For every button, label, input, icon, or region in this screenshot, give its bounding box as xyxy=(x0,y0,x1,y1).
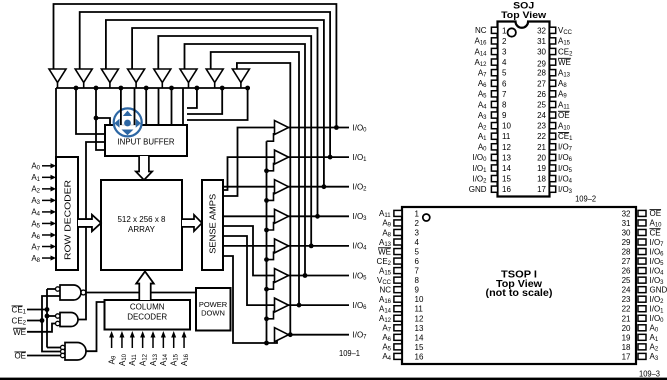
svg-text:31: 31 xyxy=(622,219,631,228)
svg-text:16: 16 xyxy=(415,352,424,361)
svg-text:26: 26 xyxy=(537,90,546,99)
wire bus stair right 1 into input buffer right edge xyxy=(187,88,197,108)
wire feedback I/O1 to input buffer 1 xyxy=(80,12,330,157)
svg-text:7: 7 xyxy=(415,267,420,276)
svg-text:22: 22 xyxy=(537,132,546,141)
svg-text:27: 27 xyxy=(622,257,631,266)
svg-text:SENSE AMPS: SENSE AMPS xyxy=(209,194,218,254)
SOJ pin 8 (A4) xyxy=(491,100,507,109)
wire sense amps to driver 0 xyxy=(223,128,275,197)
input buffer triangle 3 xyxy=(101,69,118,83)
SOJ pin 3 (A14) xyxy=(491,47,507,56)
svg-text:14: 14 xyxy=(502,164,511,173)
output driver triangle I/O4 xyxy=(275,239,289,253)
wire feedback I/O4 to input buffer 4 xyxy=(158,36,311,246)
svg-text:GND: GND xyxy=(469,185,487,194)
input buffer triangle 8 xyxy=(232,69,249,83)
hollow arrow row decoder to array xyxy=(78,215,101,231)
svg-text:4: 4 xyxy=(502,58,507,67)
svg-text:13: 13 xyxy=(415,324,424,333)
svg-text:12: 12 xyxy=(415,314,424,323)
svg-text:15: 15 xyxy=(502,175,511,184)
wire bus stair B into input buffer left edge xyxy=(76,88,105,134)
TSOP pin 17 (A3) xyxy=(622,352,646,361)
gate G1 chip enable NAND xyxy=(60,285,81,300)
input buffer triangle 5 xyxy=(154,69,171,83)
wire sense amps to driver 4 xyxy=(223,245,275,247)
TSOP pin 2 (A9) xyxy=(394,219,420,228)
SOJ pin 26 (A9) xyxy=(537,90,556,99)
output driver triangle I/O1 xyxy=(275,150,289,164)
svg-text:9: 9 xyxy=(502,111,507,120)
wire enable tap driver 4 xyxy=(267,251,274,259)
svg-text:19: 19 xyxy=(537,164,546,173)
wire WE xyxy=(27,324,58,332)
SOJ pin 13 (I/O0) xyxy=(491,153,511,162)
wire I/O7 output line xyxy=(289,334,350,336)
SOJ pin 31 (A15) xyxy=(537,37,556,46)
svg-text:5: 5 xyxy=(502,69,507,78)
wire G2 output to input buffer xyxy=(78,142,105,320)
hollow arrow row decoder to array redraw xyxy=(78,215,101,231)
wire enable tap driver 1 xyxy=(267,163,274,171)
SOJ pin 28 (A13) xyxy=(537,69,556,78)
wire sense amps to driver 3 xyxy=(223,215,275,217)
wire output enable rail xyxy=(266,141,268,343)
svg-text:30: 30 xyxy=(537,47,546,56)
TSOP pin 9 (NC) xyxy=(394,286,420,295)
SOJ pin 25 (A11) xyxy=(537,100,556,109)
SOJ pin 16 (GND) xyxy=(491,185,511,194)
svg-text:16: 16 xyxy=(502,185,511,194)
TSOP pin 6 (CE2) xyxy=(394,257,420,266)
svg-text:22: 22 xyxy=(622,305,631,314)
svg-text:21: 21 xyxy=(537,143,546,152)
wire bus stair right 3 into input buffer right edge xyxy=(187,88,248,120)
wire enable tap driver 2 xyxy=(267,192,274,200)
svg-text:WE: WE xyxy=(13,328,26,337)
wire OE xyxy=(27,355,62,357)
SOJ pin 30 (CE2) xyxy=(537,47,556,56)
svg-text:23: 23 xyxy=(537,122,546,131)
hollow arrow column decoder to array redraw xyxy=(136,272,153,301)
svg-text:28: 28 xyxy=(622,248,631,257)
bottom border rule xyxy=(0,378,667,380)
svg-text:25: 25 xyxy=(622,276,631,285)
TSOP pin 3 (A8) xyxy=(394,228,420,237)
svg-text:WE: WE xyxy=(558,58,571,67)
TSOP pin 30 (*CE) xyxy=(622,228,646,237)
SOJ pin 19 (I/O5) xyxy=(537,164,556,173)
svg-text:11: 11 xyxy=(415,305,424,314)
wire feedback I/O3 to input buffer 3 xyxy=(132,28,317,216)
TSOP pin 20 (A0) xyxy=(622,324,646,333)
svg-text:Top View: Top View xyxy=(501,10,547,21)
svg-text:2: 2 xyxy=(415,219,420,228)
SOJ pin 7 (A5) xyxy=(491,90,507,99)
svg-text:(not to scale): (not to scale) xyxy=(486,288,553,299)
input A13 xyxy=(152,336,154,348)
svg-text:14: 14 xyxy=(415,333,424,342)
svg-text:23: 23 xyxy=(622,295,631,304)
svg-text:11: 11 xyxy=(502,132,511,141)
TSOP pin 21 (I/O0) xyxy=(622,314,646,323)
wire feedback I/O0 to input buffer 0 xyxy=(54,4,337,128)
wire CE2 xyxy=(27,296,60,321)
svg-text:DECODER: DECODER xyxy=(127,313,167,322)
svg-text:8: 8 xyxy=(502,100,507,109)
SOJ pin 1 indicator xyxy=(508,28,516,36)
svg-text:NC: NC xyxy=(379,285,391,294)
power down block xyxy=(196,288,231,331)
cursor icon overlay xyxy=(114,108,142,136)
row decoder block xyxy=(56,157,78,270)
TSOP pin 15 (A5) xyxy=(394,343,424,352)
wire CE1 xyxy=(27,309,47,311)
wire sense amps to driver 7 via bottom xyxy=(223,256,277,343)
svg-text:30: 30 xyxy=(622,228,631,237)
svg-text:18: 18 xyxy=(537,175,546,184)
TSOP pin 28 (I/O6) xyxy=(622,248,646,257)
svg-text:12: 12 xyxy=(502,143,511,152)
input A12 xyxy=(142,336,144,348)
hollow arrow array to sense amps xyxy=(182,215,202,231)
SOJ pin 2 (A16) xyxy=(491,37,507,46)
wire bus stair C into input buffer left edge and top xyxy=(96,88,105,150)
svg-text:26: 26 xyxy=(622,267,631,276)
svg-text:25: 25 xyxy=(537,100,546,109)
svg-text:32: 32 xyxy=(622,209,631,218)
SOJ pin 23 (A10) xyxy=(537,122,556,131)
svg-text:31: 31 xyxy=(537,37,546,46)
svg-text:6: 6 xyxy=(415,257,420,266)
svg-text:15: 15 xyxy=(415,343,424,352)
gate G3 output enable NAND xyxy=(65,343,86,361)
svg-text:OE: OE xyxy=(14,352,26,361)
input A16 xyxy=(183,336,185,348)
SOJ pin 1 (NC) xyxy=(491,26,507,35)
wire input bus horizontal xyxy=(56,87,250,89)
svg-text:109–1: 109–1 xyxy=(339,348,360,358)
SOJ pin 27 (A8) xyxy=(537,79,556,88)
svg-text:GND: GND xyxy=(650,285,667,294)
input buffer block xyxy=(105,125,187,156)
SOJ pin 17 (I/O3) xyxy=(537,185,556,194)
wire feedback I/O5 to input buffer 5 xyxy=(185,44,306,276)
hollow arrow column decoder to array xyxy=(136,272,153,301)
svg-text:512 x 256 x 8: 512 x 256 x 8 xyxy=(117,215,166,224)
TSOP pin 1 (A11) xyxy=(394,209,420,218)
wire I/O1 output line xyxy=(289,156,350,158)
column decoder block xyxy=(105,300,191,330)
svg-text:109–2: 109–2 xyxy=(575,194,596,204)
cursor icon arrows xyxy=(114,111,141,136)
input buffer triangle 6 xyxy=(180,69,197,83)
wire bus drop 3 into input buffer top xyxy=(171,88,173,125)
wire G3 output to column decoder xyxy=(86,302,105,351)
output driver triangle I/O3 xyxy=(275,209,289,223)
SOJ pin 20 (I/O6) xyxy=(537,153,556,162)
TSOP pin 23 (I/O2) xyxy=(622,295,646,304)
svg-text:109–3: 109–3 xyxy=(639,368,660,378)
svg-text:19: 19 xyxy=(622,333,631,342)
svg-text:10: 10 xyxy=(415,295,424,304)
wire I/O3 output line xyxy=(289,215,350,217)
TSOP pin 5 (*WE) xyxy=(394,248,420,257)
TSOP pin 16 (A4) xyxy=(394,352,424,361)
svg-text:COLUMN: COLUMN xyxy=(130,303,165,312)
svg-text:CE: CE xyxy=(650,228,661,237)
svg-text:1: 1 xyxy=(502,26,507,35)
wire bus left end down to row decoder xyxy=(55,88,57,157)
SOJ pin 4 (A12) xyxy=(491,58,507,67)
SOJ pin 22 (*CE1) xyxy=(537,132,556,141)
TSOP pin 24 (GND) xyxy=(622,286,646,295)
SOJ pin 9 (A3) xyxy=(491,111,507,120)
wire I/O2 output line xyxy=(289,186,350,188)
svg-text:17: 17 xyxy=(537,185,546,194)
gate G2 write NAND xyxy=(60,313,78,327)
output driver triangle I/O5 xyxy=(275,269,289,283)
svg-text:3: 3 xyxy=(415,228,420,237)
output driver triangle I/O0 xyxy=(275,121,289,135)
wire I/O4 output line xyxy=(289,245,350,247)
TSOP pin 22 (I/O1) xyxy=(622,305,646,314)
svg-text:18: 18 xyxy=(622,343,631,352)
svg-text:8: 8 xyxy=(415,276,420,285)
input A10 xyxy=(121,336,123,348)
svg-text:NC: NC xyxy=(475,26,487,35)
array block 512x256x8 xyxy=(101,180,182,270)
svg-text:13: 13 xyxy=(502,153,511,162)
svg-text:ROW DECODER: ROW DECODER xyxy=(64,180,73,260)
TSOP pin 14 (A6) xyxy=(394,333,424,342)
svg-text:DOWN: DOWN xyxy=(201,309,225,318)
TSOP pin 12 (A12) xyxy=(394,314,424,323)
TSOP pin 18 (A2) xyxy=(622,343,646,352)
wire bus drops over icon xyxy=(120,88,122,125)
input A11 xyxy=(131,336,133,348)
svg-text:OE: OE xyxy=(558,111,570,120)
wire I/O0 output line xyxy=(289,127,350,129)
TSOP pin 25 (I/O3) xyxy=(622,276,646,285)
wire sense amps to driver 1 xyxy=(223,157,275,190)
svg-text:OE: OE xyxy=(650,209,662,218)
wire bus drop 1 into input buffer top xyxy=(145,88,147,125)
input buffer triangle 1 xyxy=(49,69,66,83)
output driver triangle I/O2 xyxy=(275,180,289,194)
svg-text:24: 24 xyxy=(537,111,546,120)
wire sense amps to driver 6 xyxy=(223,236,275,305)
svg-text:29: 29 xyxy=(537,60,546,69)
svg-text:17: 17 xyxy=(622,352,631,361)
TSOP pin 8 (VCC) xyxy=(394,276,420,285)
wire feedback I/O2 to input buffer 2 xyxy=(106,20,324,187)
hollow arrow input buffer to array xyxy=(136,156,152,180)
svg-text:9: 9 xyxy=(415,286,420,295)
SOJ pin 12 (A0) xyxy=(491,143,511,152)
wire feedback I/O6 to input buffer 6 xyxy=(211,52,299,305)
svg-text:24: 24 xyxy=(622,286,631,295)
wire enable tap driver 5 xyxy=(267,281,274,289)
svg-text:4: 4 xyxy=(415,238,420,247)
SOJ pin 14 (I/O1) xyxy=(491,164,511,173)
input buffer triangle 7 xyxy=(206,69,223,83)
SOJ pin 6 (A6) xyxy=(491,79,507,88)
wire bus stair right 2 into input buffer right edge xyxy=(187,88,222,114)
input buffer triangle 4 xyxy=(128,69,145,83)
input A15 xyxy=(173,336,175,348)
SOJ pin 21 (I/O7) xyxy=(537,143,556,152)
wire enable tap driver 0 xyxy=(267,133,274,141)
TSOP pin 1 indicator xyxy=(423,214,430,221)
TSOP pin 4 (A13) xyxy=(394,238,420,247)
wire G1 output to power down xyxy=(86,292,197,294)
svg-text:29: 29 xyxy=(622,238,631,247)
output driver triangle I/O6 xyxy=(275,298,289,312)
svg-text:2: 2 xyxy=(502,37,507,46)
SOJ pin 11 (A1) xyxy=(491,132,510,141)
input A14 xyxy=(162,336,164,348)
SOJ pin 18 (I/O4) xyxy=(537,175,556,184)
svg-text:5: 5 xyxy=(415,248,420,257)
TSOP pin 31 (A10) xyxy=(622,219,646,228)
SOJ pin 5 (A7) xyxy=(491,69,507,78)
svg-text:21: 21 xyxy=(622,314,631,323)
TSOP package body xyxy=(402,207,636,364)
TSOP pin 7 (A15) xyxy=(394,267,420,276)
TSOP pin 11 (A14) xyxy=(394,305,423,314)
TSOP pin 26 (I/O4) xyxy=(622,267,646,276)
TSOP pin 19 (A1) xyxy=(622,333,646,342)
svg-text:1: 1 xyxy=(415,209,420,218)
SOJ pin 10 (A2) xyxy=(491,122,511,131)
svg-text:20: 20 xyxy=(537,153,546,162)
svg-text:20: 20 xyxy=(622,324,631,333)
TSOP pin 13 (A7) xyxy=(394,324,424,333)
wire sense amps to driver 2 xyxy=(223,186,275,188)
TSOP pin 10 (A16) xyxy=(394,295,424,304)
TSOP pin 29 (I/O7) xyxy=(622,238,646,247)
SOJ package body xyxy=(498,22,550,197)
svg-text:6: 6 xyxy=(502,79,507,88)
TSOP pin 27 (I/O5) xyxy=(622,257,646,266)
svg-text:INPUT BUFFER: INPUT BUFFER xyxy=(118,138,175,147)
wire I/O5 output line xyxy=(289,275,350,277)
wire enable tap driver 3 xyxy=(267,222,274,230)
input A9 xyxy=(111,336,113,348)
wire feedback I/O7 to input buffer 7 xyxy=(237,63,290,335)
wire I/O6 output line xyxy=(289,304,350,306)
svg-text:7: 7 xyxy=(502,90,507,99)
wire sense amps to driver 5 xyxy=(223,226,275,276)
svg-text:32: 32 xyxy=(537,26,546,35)
TSOP pin 32 (*OE) xyxy=(622,209,646,218)
sense amps block xyxy=(202,180,223,270)
svg-text:10: 10 xyxy=(502,122,511,131)
SOJ pin 15 (I/O2) xyxy=(491,175,511,184)
svg-text:3: 3 xyxy=(502,47,507,56)
SOJ pin 29 (*WE) xyxy=(537,59,556,69)
SOJ pin 24 (*OE) xyxy=(537,111,556,120)
svg-text:ARRAY: ARRAY xyxy=(128,225,156,234)
svg-text:WE: WE xyxy=(378,247,391,256)
svg-text:27: 27 xyxy=(537,79,546,88)
wire bus drop 2 into input buffer top xyxy=(158,88,160,125)
svg-text:28: 28 xyxy=(537,69,546,78)
wire bus drop 4 into input buffer top xyxy=(182,88,184,125)
output driver triangle I/O7 xyxy=(275,328,289,342)
SOJ pin 32 (VCC) xyxy=(537,26,556,35)
wire enable tap driver 6 xyxy=(267,311,274,319)
input buffer triangle 2 xyxy=(75,69,92,83)
